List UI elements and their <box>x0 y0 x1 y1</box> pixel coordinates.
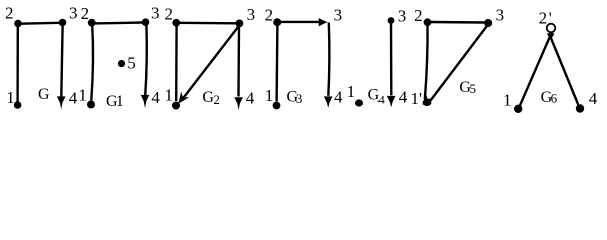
graph G6: vertex 1 <box>514 105 522 113</box>
graph G3: wire edge 2-3 top horizontal <box>280 21 319 23</box>
graph G4: arrowhead at 4 <box>387 96 396 108</box>
graph G3: vertex 1 <box>273 102 281 110</box>
svg-text:1: 1 <box>265 86 274 105</box>
graph G1: wire edge 3-4 right vertical <box>145 24 147 96</box>
graph G1: arrowhead at 4 <box>141 95 150 108</box>
graph G: arrowhead at 4 <box>57 96 66 109</box>
svg-text:3: 3 <box>296 91 303 106</box>
graph G1: vertex 1 <box>87 101 95 109</box>
graph G2: vertex 1 <box>172 102 180 110</box>
graph G5: wire edge 3-1' diagonal <box>431 25 489 101</box>
graph G3: arrowhead at 4 <box>324 96 333 108</box>
graph G1: vertex 2 <box>88 19 96 27</box>
graph G2: arrowhead at 1 on diagonal <box>178 92 189 104</box>
graph G5: vertex 2 <box>424 18 432 26</box>
graph G: wire edge 2-1 left vertical <box>16 25 19 102</box>
graph G5: vertex 3 <box>484 19 492 27</box>
svg-text:2: 2 <box>414 6 423 25</box>
graph G2: arrowhead at 4 <box>234 97 243 110</box>
svg-text:4: 4 <box>589 89 598 108</box>
graph G6: vertex 2' open circle <box>547 24 556 33</box>
graph G1: wire edge 2-3 top horizontal <box>95 21 143 24</box>
svg-text:2: 2 <box>265 5 274 24</box>
svg-text:4: 4 <box>151 88 160 107</box>
graph G5: wire edge 2-1' left vertical <box>425 24 428 100</box>
graph G1: vertex 3 <box>142 18 150 26</box>
svg-text:2: 2 <box>539 9 548 28</box>
graph G4: vertex 1 isolated <box>355 99 363 106</box>
svg-text:4: 4 <box>379 93 385 107</box>
svg-text:3: 3 <box>334 5 343 24</box>
svg-text:5: 5 <box>127 54 136 73</box>
graph G2: wire edge 3-4 right vertical <box>237 26 240 97</box>
svg-text:5: 5 <box>470 81 477 96</box>
graph G2: wire edge 2-1 left vertical <box>175 25 178 102</box>
svg-text:2: 2 <box>165 5 174 24</box>
graph G: wire edge 3-4 right vertical <box>61 26 62 97</box>
svg-text:3: 3 <box>398 7 407 26</box>
svg-text:1: 1 <box>116 93 124 110</box>
graph G4: wire edge 3-4 vertical <box>390 23 393 95</box>
svg-text:2: 2 <box>81 4 90 23</box>
graph G: wire edge 2-3 top horizontal <box>20 22 60 25</box>
graph G: vertex 1 <box>14 101 22 109</box>
svg-text:4: 4 <box>69 89 78 108</box>
graph G1: wire edge 2-1 left vertical <box>91 25 93 101</box>
graph G: vertex 2 <box>14 20 22 28</box>
graph G6: junction wedge below 2' <box>547 33 555 40</box>
graph G5: vertex 1' <box>423 99 432 106</box>
svg-text:1: 1 <box>347 82 356 101</box>
svg-text:1': 1' <box>411 89 423 108</box>
svg-text:3: 3 <box>69 3 78 22</box>
graph G4: vertex 3 <box>388 17 395 24</box>
svg-text:': ' <box>549 9 552 28</box>
svg-text:3: 3 <box>151 3 160 22</box>
svg-text:6: 6 <box>551 90 558 105</box>
svg-text:4: 4 <box>334 87 343 106</box>
svg-text:1: 1 <box>503 91 512 110</box>
graph G2: wire edge 3-1 diagonal <box>181 26 239 101</box>
graph G6: wire edge 2'-4 right leg <box>549 34 579 107</box>
svg-text:4: 4 <box>246 88 255 107</box>
graph G2: vertex 2 <box>172 19 180 27</box>
svg-text:3: 3 <box>496 5 505 24</box>
graph G3: arrowhead at 3 pointing right <box>319 18 328 26</box>
graph G5: wire edge 2-3 top horizontal <box>430 21 485 24</box>
graph G3: wire edge 2-1 left vertical <box>275 24 278 102</box>
svg-text:2: 2 <box>5 4 14 23</box>
svg-text:1: 1 <box>6 88 15 107</box>
svg-text:4: 4 <box>399 87 408 106</box>
graph G1: vertex 5 isolated <box>118 60 125 67</box>
graph G: vertex 3 <box>59 19 67 27</box>
svg-text:3: 3 <box>247 5 256 24</box>
graph G5: arrowhead at 1' on diagonal <box>423 93 434 105</box>
graph G6: wire edge 2'-1 left leg <box>520 33 552 107</box>
svg-text:1: 1 <box>165 86 174 105</box>
svg-text:2: 2 <box>213 92 220 107</box>
graph G3: vertex 2 <box>273 18 281 26</box>
svg-text:1: 1 <box>78 85 87 104</box>
graph G6: vertex 4 <box>576 104 584 112</box>
graph G2: wire edge 2-3 top horizontal <box>179 22 237 25</box>
graph G2: vertex 3 <box>236 20 244 28</box>
svg-text:G: G <box>38 86 50 103</box>
graph G3: wire edge 3-4 right vertical <box>328 23 329 96</box>
